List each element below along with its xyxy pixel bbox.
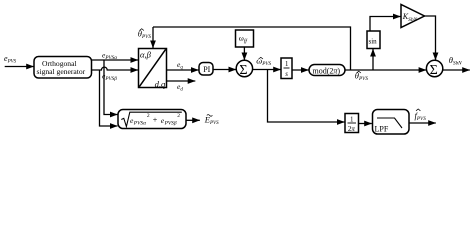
svg-text:α,β: α,β: [140, 49, 152, 59]
svg-text:PVSα: PVSα: [133, 120, 146, 126]
block PI controller: [199, 63, 213, 76]
wire e_PVSbeta with hop: [92, 67, 139, 70]
wire alpha drop to sqrt block: [104, 60, 118, 115]
wire theta feedback down into alpha-beta block: [152, 27, 154, 48]
svg-text:mod(2π): mod(2π): [313, 66, 341, 75]
wire feedback riser and top run: [153, 27, 351, 70]
sqrt formula content: [130, 113, 180, 126]
svg-text:ed: ed: [177, 82, 183, 93]
svg-text:sin: sin: [369, 38, 378, 46]
gain triangle K: [401, 5, 425, 28]
block 1/2pi: [345, 114, 359, 133]
LPF response curve: [377, 118, 402, 128]
svg-text:fPVS: fPVS: [415, 110, 427, 122]
svg-text:KSbN: KSbN: [402, 12, 418, 23]
block sin: [367, 31, 380, 49]
block integrator 1/s: [281, 58, 292, 79]
svg-text:1: 1: [285, 61, 288, 68]
fraction bar of 1/s: [284, 67, 290, 69]
summing junction sum2: [426, 60, 442, 76]
hat of theta top left: [140, 29, 144, 31]
wire beta drop to sqrt block: [100, 70, 118, 126]
svg-text:ePVS: ePVS: [4, 54, 17, 65]
wire e_q output to PI: [167, 69, 199, 71]
block omega_ff constant: [236, 30, 254, 47]
svg-text:Σ: Σ: [239, 63, 247, 78]
hat of theta below wire: [357, 71, 361, 73]
svg-text:+: +: [153, 116, 158, 125]
wire riser into sin: [372, 49, 374, 70]
hat of omega: [259, 57, 263, 59]
wire e_d output: [167, 80, 196, 82]
wire LPF output: [409, 122, 436, 124]
svg-text:θSbN: θSbN: [449, 55, 462, 67]
wire sum1 to 1/s with junction: [253, 69, 281, 71]
svg-text:1: 1: [350, 115, 354, 123]
wire 1/s to mod: [292, 69, 309, 71]
svg-text:signal generator: signal generator: [37, 67, 86, 76]
svg-text:ωPVS: ωPVS: [256, 56, 271, 67]
svg-text:Σ: Σ: [430, 63, 438, 78]
svg-text:2π: 2π: [348, 125, 356, 133]
tilde of E: [207, 115, 213, 117]
wire 1/2pi to LPF: [359, 123, 372, 125]
wire branch down to 1/2pi: [268, 70, 345, 123]
block LPF: [373, 110, 410, 135]
block sqrt magnitude: [118, 110, 186, 129]
wire e_PVSalpha: [92, 59, 139, 61]
block orthogonal signal generator: [34, 57, 92, 79]
summing junction sum1: [236, 60, 252, 76]
svg-text:2: 2: [147, 113, 150, 119]
svg-text:2: 2: [177, 113, 180, 119]
radical sign of sqrt block: [121, 112, 182, 126]
wire output theta: [443, 69, 470, 71]
fraction bar of 1/2pi: [348, 122, 357, 124]
svg-text:ωff: ωff: [239, 35, 249, 45]
wire sqrt output: [186, 119, 200, 121]
svg-text:PI: PI: [203, 65, 210, 74]
svg-text:LPF: LPF: [375, 125, 389, 134]
svg-text:ePVSβ: ePVSβ: [102, 72, 117, 83]
block alpha-beta to d-q transform: [139, 49, 167, 88]
block mod 2pi: [309, 65, 345, 76]
wire omega_ff to sum1: [243, 47, 245, 60]
svg-text:s: s: [285, 71, 288, 78]
diagonal of transform block: [139, 49, 165, 86]
wire PI to sum1: [213, 69, 236, 71]
wire input e_PVS: [5, 66, 34, 68]
hat of f: [416, 109, 420, 111]
wire triangle to sum2: [425, 16, 436, 60]
svg-text:eq: eq: [177, 60, 183, 71]
svg-text:PVSβ: PVSβ: [164, 120, 177, 126]
wire mod to sum2: [345, 69, 426, 71]
wire sin to gain triangle: [370, 17, 401, 32]
svg-text:ePVSα: ePVSα: [102, 51, 117, 62]
svg-text:d,q: d,q: [155, 79, 166, 89]
